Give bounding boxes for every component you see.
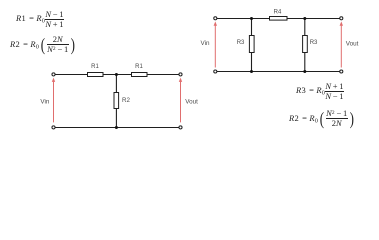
- svg-text:R3: R3: [237, 40, 245, 46]
- svg-text:R4: R4: [274, 9, 282, 15]
- svg-text:Vin: Vin: [201, 40, 210, 47]
- svg-text:R1: R1: [91, 64, 99, 70]
- svg-text:Vout: Vout: [346, 41, 359, 48]
- svg-text:R2: R2: [122, 97, 130, 104]
- svg-text:R3: R3: [310, 40, 318, 46]
- svg-text:Vout: Vout: [185, 98, 198, 105]
- svg-text:R1: R1: [135, 64, 143, 70]
- svg-text:Vin: Vin: [40, 99, 49, 106]
